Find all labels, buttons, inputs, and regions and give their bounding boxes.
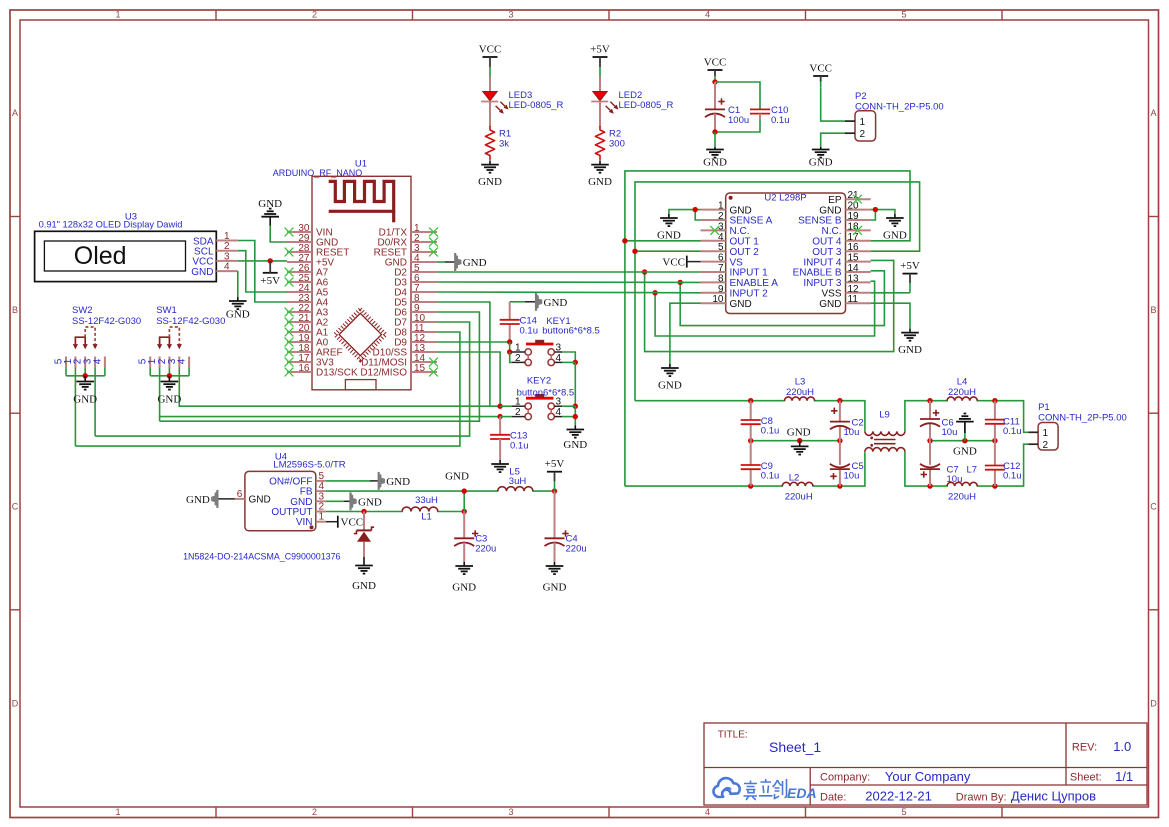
svg-text:GND: GND <box>883 230 907 242</box>
svg-text:1: 1 <box>860 117 866 128</box>
key KEY2 button6*6*8.5 <box>512 394 562 420</box>
power flag VCC (P2 branch) <box>809 63 832 88</box>
U4 right pins <box>269 471 326 528</box>
svg-text:GND: GND <box>953 446 977 458</box>
diode 1N5824 <box>354 512 374 558</box>
LED LED2 <box>591 92 618 114</box>
ground GND left of U2 <box>657 214 681 242</box>
power flag VCC at U2 VS pin6 <box>662 256 700 269</box>
power flag +5V (LED2 branch) <box>590 44 610 78</box>
component U1 ARDUINO_RF_NANO body <box>312 176 411 390</box>
svg-text:17: 17 <box>848 232 860 243</box>
svg-text:4: 4 <box>224 262 230 273</box>
svg-text:Date:: Date: <box>820 791 846 803</box>
svg-text:+5V: +5V <box>260 275 280 287</box>
svg-text:OUT 2: OUT 2 <box>730 247 760 258</box>
svg-text:VCC: VCC <box>809 63 832 75</box>
ground GND above U1 (pin 29) <box>258 198 282 226</box>
wire right network top rail <box>905 401 1029 433</box>
wire U2 pin20+pin19 to ground right <box>871 210 876 220</box>
wire D4 to U2 INPUT2 <box>437 291 701 294</box>
switch SW1 SS-12F42-G030 <box>138 327 189 406</box>
svg-text:13: 13 <box>848 273 860 284</box>
ground GND on left mid rail <box>787 426 811 454</box>
svg-text:OUT 3: OUT 3 <box>812 247 842 258</box>
svg-text:GND: GND <box>226 309 250 321</box>
svg-text:SS-12F42-G030: SS-12F42-G030 <box>72 316 141 327</box>
U1 MCU chip symbol <box>335 309 386 360</box>
svg-text:4: 4 <box>556 407 562 418</box>
LED3 anode pin wire <box>489 77 491 92</box>
node KEY2 pin4 junction <box>573 414 578 419</box>
svg-text:0.1u: 0.1u <box>761 426 780 437</box>
svg-text:L2: L2 <box>789 472 800 483</box>
connector P2 CONN-TH_2P-P5.00 <box>845 111 876 141</box>
svg-text:D: D <box>1150 699 1157 709</box>
key KEY1 button6*6*8.5 <box>512 340 562 366</box>
ground GND inverted on right mid rail <box>953 414 977 458</box>
wire KEY2 pin3/pin4 to ground <box>562 405 575 407</box>
U1 left pin stubs, numbers, names <box>287 223 358 379</box>
wire U4 pin3 to GND flag <box>326 500 344 502</box>
svg-text:9: 9 <box>718 284 724 295</box>
ground GND below R1 <box>489 160 491 162</box>
svg-text:button6*6*8.5: button6*6*8.5 <box>517 388 575 399</box>
svg-text:100u: 100u <box>728 115 749 126</box>
ground GND below KEY2 <box>563 426 587 452</box>
svg-text:C: C <box>12 502 19 512</box>
wire VCC to P2 pin 1 <box>821 87 845 121</box>
wire C4 to ground <box>554 543 556 563</box>
component U3 OLED display <box>35 231 217 281</box>
svg-text:GND: GND <box>787 426 811 438</box>
wire KEY2 pin2 stub <box>500 416 512 418</box>
svg-text:VCC: VCC <box>479 44 502 56</box>
svg-text:GND: GND <box>249 495 271 506</box>
node pin20/pin19 junction <box>873 207 878 212</box>
svg-text:5: 5 <box>718 242 724 253</box>
svg-text:Drawn By:: Drawn By: <box>956 791 1007 803</box>
inductor L1 33uH <box>403 510 437 513</box>
U1 right pin stubs, numbers, names <box>360 223 437 379</box>
svg-text:11: 11 <box>848 294 859 305</box>
svg-text:7: 7 <box>718 263 724 274</box>
ground GND below diode <box>352 557 376 592</box>
capacitor C10 0.1u <box>750 109 770 113</box>
ground GND below C13 <box>491 460 509 472</box>
svg-text:SENSE A: SENSE A <box>730 216 773 227</box>
svg-text:1: 1 <box>319 512 325 523</box>
svg-text:GND: GND <box>563 439 587 451</box>
wire P2 pin 2 to ground <box>821 133 845 147</box>
wire SW1 pin3 down to KEY2 pin1 line <box>179 368 500 407</box>
wire D9 to C14/KEY1 node <box>437 341 510 343</box>
wire C13 to ground <box>499 439 501 460</box>
ground GND below U3 pin4 <box>226 297 250 321</box>
node C11 top <box>992 398 997 403</box>
capacitor C7 10u <box>920 441 940 486</box>
svg-text:GND: GND <box>703 157 727 169</box>
svg-text:C: C <box>1150 502 1157 512</box>
node pin1/pin2 junction <box>693 207 698 212</box>
node C14/D9 junction <box>507 339 512 344</box>
wire SW2 pin1 down to D8 line <box>74 368 76 447</box>
svg-text:15: 15 <box>848 253 860 264</box>
wire D6 down-left to SW1 pin1 line <box>160 312 480 421</box>
node C2 top <box>837 398 842 403</box>
wire VCC node to C10 <box>715 82 760 109</box>
wire U2 pin10 GND down-left <box>670 303 701 364</box>
svg-text:GND: GND <box>730 205 752 216</box>
U3 pin names <box>191 236 214 278</box>
svg-text:GND: GND <box>898 344 922 356</box>
svg-text:4: 4 <box>705 10 710 20</box>
svg-text:+5V: +5V <box>590 44 610 56</box>
svg-text:GND: GND <box>445 471 469 483</box>
capacitor C5 10u <box>830 441 850 486</box>
resistor R1 3k <box>485 126 494 160</box>
svg-text:N.C.: N.C. <box>822 226 842 237</box>
wire D7 down-left to SW2 pin3 line <box>95 322 470 436</box>
svg-text:GND: GND <box>809 157 833 169</box>
svg-text:SW2: SW2 <box>72 305 93 316</box>
wire D10 down to KEY2 pin1 <box>437 352 500 406</box>
node KEY2 pin1 junction <box>497 404 502 409</box>
svg-text:A: A <box>1150 108 1156 118</box>
svg-text:GND: GND <box>544 297 568 309</box>
capacitor C9 0.1u <box>741 441 761 486</box>
transformer L9 <box>865 431 905 451</box>
svg-text:OUT 1: OUT 1 <box>730 237 760 248</box>
svg-text:10u: 10u <box>947 474 963 485</box>
wire D8 down-left to SW2 pin1 line <box>75 332 460 446</box>
svg-text:3uH: 3uH <box>509 476 527 487</box>
wire right network bottom rail <box>905 444 1029 486</box>
svg-text:GND: GND <box>658 380 682 392</box>
capacitor C3 220u <box>454 512 478 547</box>
svg-text:1: 1 <box>718 201 724 212</box>
svg-text:VIN: VIN <box>296 517 313 528</box>
svg-text:2: 2 <box>860 129 866 140</box>
wire U2 pin1+pin2 to ground left <box>695 210 700 220</box>
svg-text:CONN-TH_2P-P5.00: CONN-TH_2P-P5.00 <box>855 102 944 113</box>
ground GND below C3 <box>452 562 476 594</box>
capacitor C8 0.1u <box>741 401 761 441</box>
svg-text:1: 1 <box>115 807 120 817</box>
svg-text:ARDUINO_RF_NANO: ARDUINO_RF_NANO <box>273 168 363 178</box>
svg-text:EDA: EDA <box>787 785 817 801</box>
U2 no-connect X marks <box>710 226 719 235</box>
wire C10 bottom to GND node <box>715 114 760 132</box>
wire output rail bottom (net A) <box>625 452 865 487</box>
svg-text:INPUT 2: INPUT 2 <box>730 289 769 300</box>
wire KEY1 pin1 to pin2 <box>510 352 512 362</box>
svg-text:INPUT 3: INPUT 3 <box>803 278 842 289</box>
svg-text:INPUT 1: INPUT 1 <box>730 268 769 279</box>
node C7 bottom <box>927 483 932 488</box>
inductor L5 3uH <box>499 490 533 493</box>
wire OUT2 loop to OUT3 and output rail (net B) <box>635 250 701 252</box>
node L1 output / C3 junction <box>462 509 467 514</box>
node KEY2 pin2 junction <box>497 414 502 419</box>
ground GND below C4 <box>543 562 567 594</box>
ground GND below C1 <box>703 147 727 169</box>
svg-text:GND: GND <box>819 299 841 310</box>
svg-text:300: 300 <box>609 139 625 150</box>
node FB junction <box>462 488 467 493</box>
node C8/C9 mid <box>748 438 753 443</box>
ground GND right of U2 <box>883 214 907 242</box>
svg-text:0.1u: 0.1u <box>520 326 539 337</box>
svg-text:1: 1 <box>115 10 120 20</box>
svg-text:SENSE B: SENSE B <box>798 216 842 227</box>
net flag GND at U1 pin4 <box>437 261 445 263</box>
svg-text:GND: GND <box>191 267 213 278</box>
svg-text:10u: 10u <box>844 427 860 438</box>
node +5V / C4 junction <box>552 488 557 493</box>
U1 no-connect X marks left <box>285 228 294 377</box>
node OUT2 junction <box>632 249 637 254</box>
svg-text:SS-12F42-G030: SS-12F42-G030 <box>156 316 225 327</box>
svg-text:3: 3 <box>508 807 513 817</box>
wire SW2 pin3 down to D7 line <box>94 368 96 437</box>
capacitor C13 0.1u <box>490 417 510 439</box>
wire to ground <box>714 132 716 147</box>
svg-text:GND: GND <box>588 176 612 188</box>
LED2 anode pin wire <box>599 77 601 92</box>
svg-text:GND: GND <box>358 497 382 509</box>
U1 no-connect X marks right <box>429 228 438 377</box>
node diode junction on OUTPUT wire <box>361 509 366 514</box>
svg-text:12: 12 <box>848 284 860 295</box>
svg-text:VCC: VCC <box>341 517 364 529</box>
svg-text:GND: GND <box>730 299 752 310</box>
svg-text:REV:: REV: <box>1072 742 1097 754</box>
svg-text:EP: EP <box>828 195 842 206</box>
svg-text:220uH: 220uH <box>948 491 976 502</box>
svg-text:1N5824-DO-214ACSMA_C9900001376: 1N5824-DO-214ACSMA_C9900001376 <box>183 552 340 562</box>
svg-text:10: 10 <box>712 294 724 305</box>
wire D2 to U2 INPUT1 <box>437 271 701 273</box>
wire GND pin4 down <box>237 271 239 297</box>
node KEY1 pin1 junction <box>507 349 512 354</box>
node OUT1 junction <box>622 238 627 243</box>
power flag +5V below wire <box>260 261 280 287</box>
svg-text:Oled: Oled <box>74 242 127 270</box>
svg-text:1.0: 1.0 <box>1113 739 1131 754</box>
svg-text:Sheet_1: Sheet_1 <box>769 739 821 755</box>
title block texts <box>718 730 1133 804</box>
wire U2 ENABLE A loop to ENABLE B <box>680 271 884 326</box>
svg-text:GND: GND <box>478 176 502 188</box>
svg-text:B: B <box>1150 305 1156 315</box>
wire KEY1 pin3 to pin4 and down to KEY2 <box>562 352 575 362</box>
svg-text:L7: L7 <box>967 465 978 476</box>
svg-text:LED-0805_R: LED-0805_R <box>509 100 564 111</box>
wire KEY2 pin2 line <box>160 416 501 418</box>
node GND junction below C1 <box>712 129 717 134</box>
svg-text:CONN-TH_2P-P5.00: CONN-TH_2P-P5.00 <box>1038 413 1127 424</box>
svg-text:GND: GND <box>73 394 97 406</box>
svg-text:20: 20 <box>848 201 860 212</box>
svg-text:D13/SCK: D13/SCK <box>316 368 358 379</box>
svg-text:220u: 220u <box>475 544 496 555</box>
capacitor C4 220u <box>545 491 569 546</box>
U4 left pin 6 <box>235 498 245 500</box>
svg-text:2: 2 <box>515 407 521 418</box>
power flag VCC (LED3 branch) <box>479 44 502 78</box>
connector P1 CONN-TH_2P-P5.00 <box>1028 423 1058 452</box>
capacitor C1 100u <box>705 82 725 117</box>
svg-text:4: 4 <box>92 358 103 364</box>
svg-text:U2 L298P: U2 L298P <box>764 193 806 204</box>
svg-text:33uH: 33uH <box>415 495 438 506</box>
svg-text:Sheet:: Sheet: <box>1070 772 1102 784</box>
svg-text:0.1u: 0.1u <box>761 471 780 482</box>
svg-text:4: 4 <box>177 358 188 364</box>
svg-text:A: A <box>12 108 18 118</box>
svg-text:5: 5 <box>901 10 906 20</box>
svg-text:GND: GND <box>258 198 282 210</box>
wire middle rail right <box>930 440 995 442</box>
wire LED3 to R1 <box>489 102 491 128</box>
wire VSS to +5V <box>871 292 910 294</box>
svg-text:220uH: 220uH <box>948 387 976 398</box>
svg-text:OUT 4: OUT 4 <box>812 237 842 248</box>
svg-text:2: 2 <box>1043 440 1049 451</box>
svg-text:LM2596S-5.0/TR: LM2596S-5.0/TR <box>273 460 345 471</box>
svg-text:P2: P2 <box>855 91 867 102</box>
svg-text:N.C.: N.C. <box>730 226 750 237</box>
svg-text:3: 3 <box>508 10 513 20</box>
node KEY1 pin4 junction <box>573 360 578 365</box>
svg-text:GND: GND <box>819 205 841 216</box>
wire D5 down to KEY2 pin1 row <box>437 302 490 406</box>
svg-text:GND: GND <box>463 257 487 269</box>
node KEY2 pin3 junction <box>573 404 578 409</box>
wire SDA to A4 <box>238 241 287 303</box>
svg-text:D12/MISO: D12/MISO <box>360 368 407 379</box>
svg-text:10u: 10u <box>844 471 860 482</box>
capacitor C2 10u <box>830 401 850 441</box>
capacitor C14 0.1u <box>510 301 525 303</box>
svg-text:0.1u: 0.1u <box>771 115 790 126</box>
node INPUT1 junction <box>642 269 647 274</box>
svg-text:3: 3 <box>556 343 562 354</box>
component U2 L298P body <box>726 193 846 314</box>
node C6/C7 mid <box>927 438 932 443</box>
svg-text:15: 15 <box>414 363 426 374</box>
ground GND below P2 <box>809 147 833 169</box>
U2 right pins <box>793 190 871 310</box>
power flag VCC at U4 VIN <box>326 516 363 529</box>
svg-text:0.1u: 0.1u <box>1003 471 1022 482</box>
node C6 top <box>927 398 932 403</box>
resistor R2 300 <box>595 126 604 160</box>
wire U4 OUTPUT row <box>326 511 464 513</box>
svg-text:0.1u: 0.1u <box>1003 426 1022 437</box>
svg-text:16: 16 <box>298 363 310 374</box>
node ENABLE A junction <box>678 280 683 285</box>
wire U2 INPUT1 loop to INPUT4 <box>645 260 894 351</box>
capacitor C11 0.1u <box>985 401 1005 441</box>
svg-text:1: 1 <box>1043 428 1049 439</box>
wire U2 INPUT2 loop to INPUT3 <box>655 281 875 336</box>
svg-text:220uH: 220uH <box>785 491 813 502</box>
wire SW1 pin1 down to D6 line <box>159 368 161 422</box>
wire OUT1 loop to OUT4 and output rail (net A) <box>625 240 701 242</box>
inductor L4 220uH <box>948 399 977 402</box>
wire down to KEY2 pin3 <box>574 362 576 406</box>
wire L1 node up to FB wire <box>463 491 465 511</box>
node +5V junction <box>268 258 273 263</box>
svg-text:+5V: +5V <box>545 458 565 470</box>
svg-text:220uH: 220uH <box>786 387 814 398</box>
svg-text:2: 2 <box>718 211 724 222</box>
power flag +5V above C4 <box>545 458 565 491</box>
wire U2 pin11 GND right <box>871 303 910 328</box>
node C9 bottom <box>748 483 753 488</box>
wire LED2 to R2 <box>599 102 601 128</box>
LED LED3 <box>481 92 508 114</box>
wire middle rail left <box>751 440 840 442</box>
svg-text:2: 2 <box>312 807 317 817</box>
wire VCC to +5V pin27 <box>238 260 287 262</box>
svg-text:2: 2 <box>312 10 317 20</box>
svg-text:TITLE:: TITLE: <box>718 730 748 741</box>
wire U4 pin5 to GND flag <box>326 480 370 482</box>
ground GND below-right of U2 <box>898 329 922 357</box>
svg-text:LED-0805_R: LED-0805_R <box>619 100 674 111</box>
svg-text:10u: 10u <box>942 427 958 438</box>
svg-text:ENABLE A: ENABLE A <box>730 278 779 289</box>
svg-text:VCC: VCC <box>704 57 727 69</box>
svg-text:GND: GND <box>386 476 410 488</box>
svg-text:6: 6 <box>718 253 724 264</box>
svg-text:ENABLE B: ENABLE B <box>793 268 842 279</box>
svg-text:L9: L9 <box>879 410 890 421</box>
svg-text:1/1: 1/1 <box>1115 769 1133 784</box>
svg-text:8: 8 <box>718 273 724 284</box>
wire C14 node down to KEY1 pin1 <box>509 342 511 352</box>
wire GND symbol to pin29 <box>270 226 287 242</box>
svg-text:VSS: VSS <box>821 289 841 300</box>
svg-text:Company:: Company: <box>820 772 870 784</box>
svg-text:button6*6*8.5: button6*6*8.5 <box>542 326 600 337</box>
power flag +5V at U2 VSS pin12 <box>900 260 920 293</box>
svg-text:D: D <box>12 699 19 709</box>
svg-text:16: 16 <box>848 242 860 253</box>
svg-text:B: B <box>12 305 18 315</box>
svg-text:GND: GND <box>657 230 681 242</box>
net flag GND at U4 pin6 (mirrored) <box>186 490 235 508</box>
svg-text:2022-12-21: 2022-12-21 <box>865 789 932 804</box>
component U4 LM2596S-5.0/TR body <box>245 471 316 530</box>
title block <box>704 723 1147 805</box>
svg-text:SW1: SW1 <box>156 305 177 316</box>
node C5 bottom <box>837 483 842 488</box>
svg-text:+5V: +5V <box>900 260 920 272</box>
svg-text:4: 4 <box>556 353 562 364</box>
wire output rail top (net B) <box>635 401 865 432</box>
wire KEY2 pin1 stub <box>500 405 512 407</box>
node mid-rail GND tap <box>797 438 802 443</box>
svg-text:L1: L1 <box>421 512 432 523</box>
ground GND below R2 <box>599 160 601 162</box>
node INPUT2 junction <box>652 290 657 295</box>
svg-text:GND: GND <box>157 394 181 406</box>
svg-text:4: 4 <box>705 807 710 817</box>
